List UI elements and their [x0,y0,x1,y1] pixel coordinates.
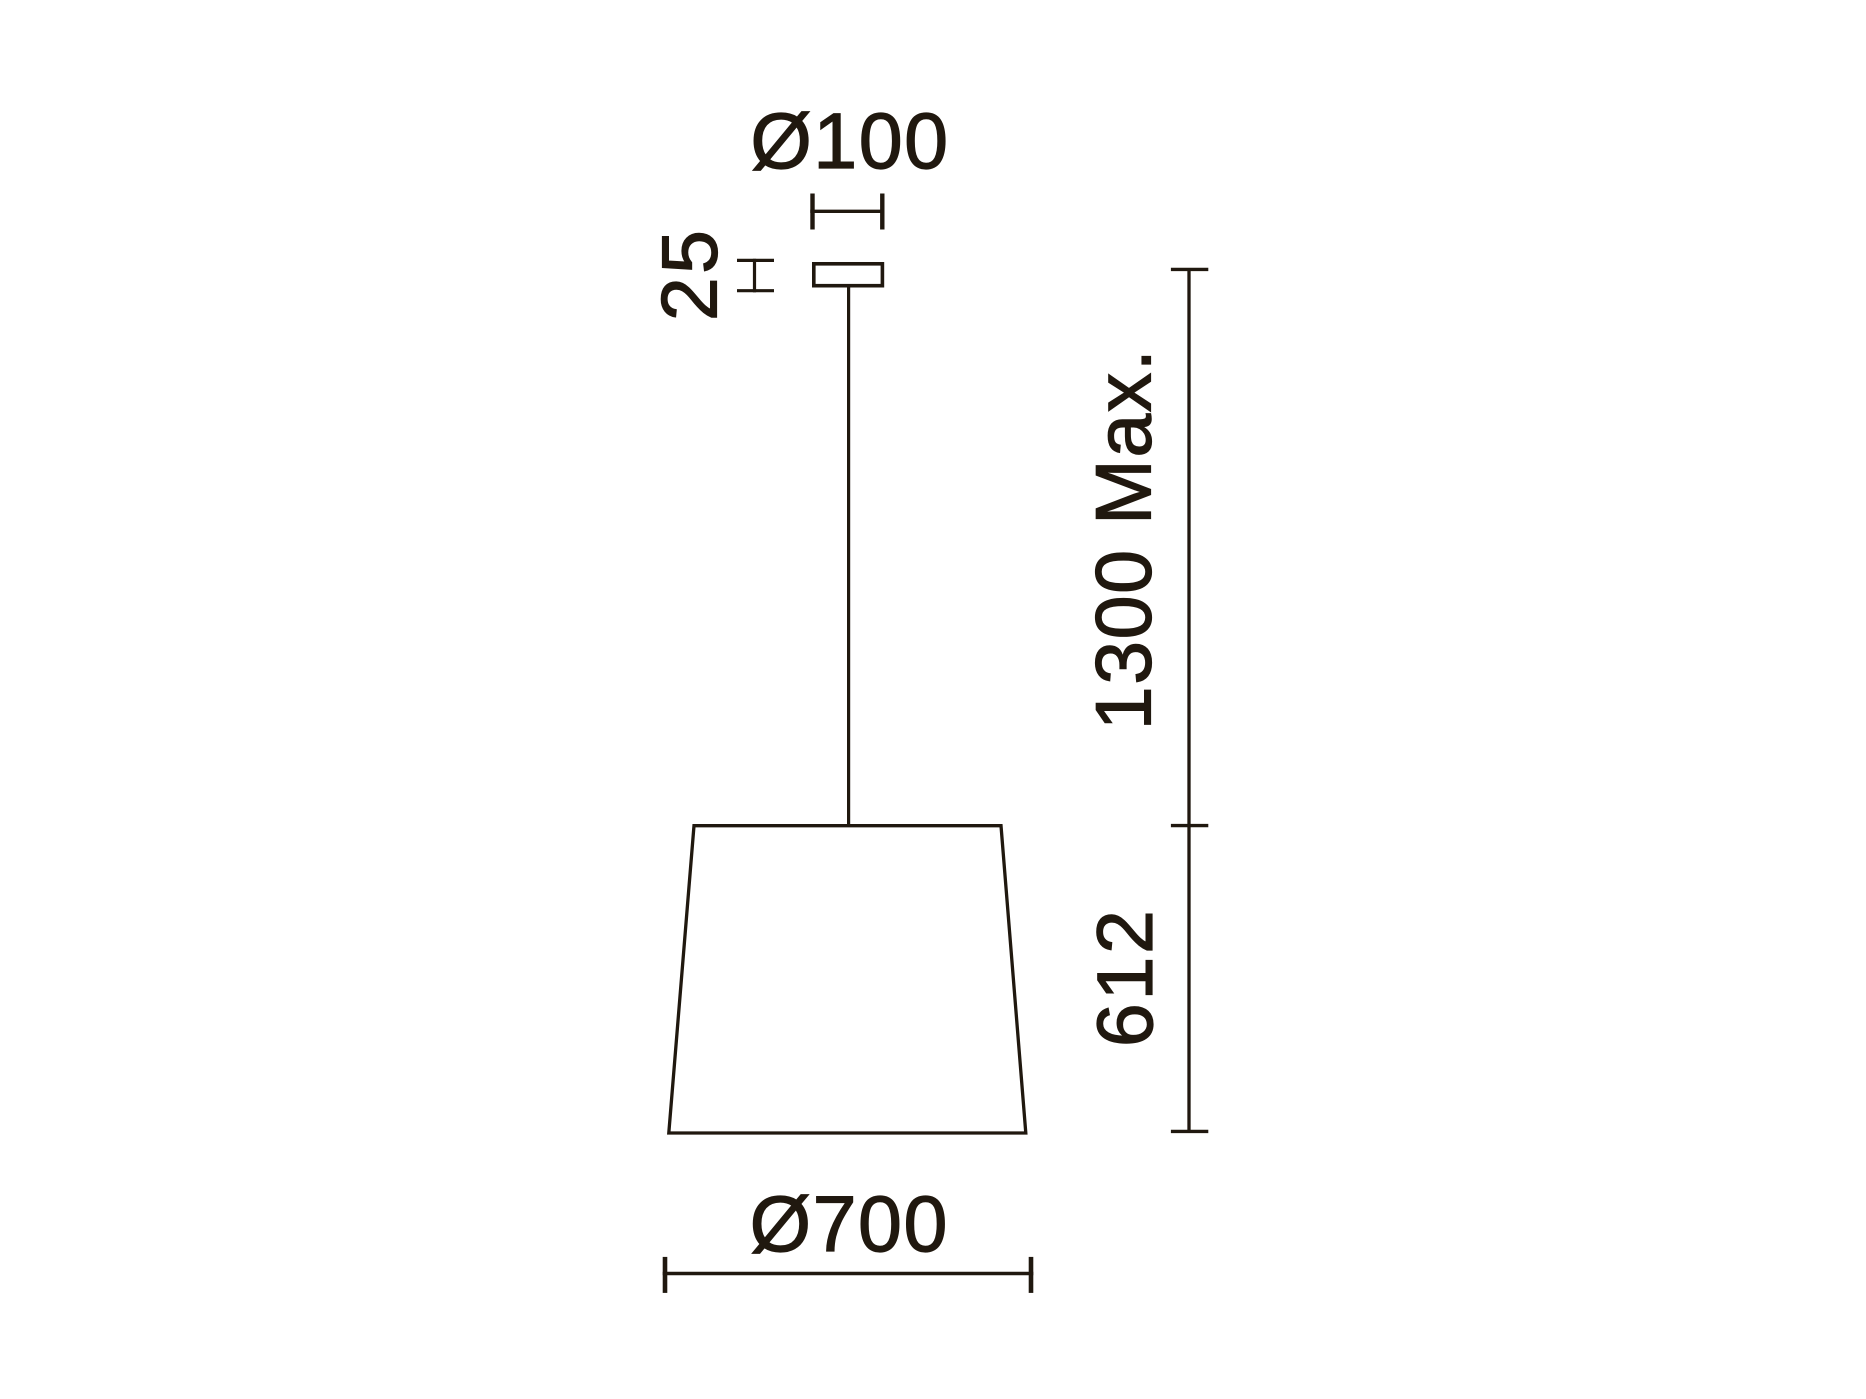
dimension line 1300 Max. / 612 [1171,269,1208,1131]
svg-text:25: 25 [645,227,734,321]
svg-text:1300 Max.: 1300 Max. [1078,348,1167,730]
svg-text:Ø100: Ø100 [750,96,949,185]
dimension line Ø100 [810,194,884,230]
dimension marker 25 [737,259,774,293]
svg-text:612: 612 [1080,907,1169,1047]
dimension line Ø700 [663,1257,1034,1293]
ceiling canopy [814,264,883,286]
lampshade [669,826,1026,1133]
svg-text:Ø700: Ø700 [750,1179,949,1268]
suspension cord [847,288,850,826]
